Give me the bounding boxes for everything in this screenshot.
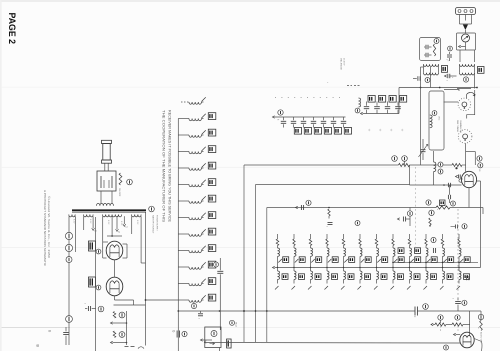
- svg-text:6.3 V: 6.3 V: [73, 219, 75, 224]
- svg-text:THE COOPERATION OF THE MANUFAC: THE COOPERATION OF THE MANUFACTURER OF T…: [162, 110, 166, 223]
- svg-text:RECEIVER MAKES IT POSSIBLE TO: RECEIVER MAKES IT POSSIBLE TO BRING YOU …: [168, 110, 172, 222]
- svg-text:AUDIO OUT: AUDIO OUT: [480, 332, 483, 344]
- svg-text:CHANNEL SEL: CHANNEL SEL: [459, 120, 462, 133]
- svg-text:FINE TUNING: FINE TUNING: [456, 120, 458, 133]
- svg-text:b: b: [172, 331, 176, 333]
- svg-text:ON-OFF: ON-OFF: [118, 188, 120, 197]
- svg-text:6.3 V: 6.3 V: [120, 221, 122, 226]
- svg-text:6.3 V: 6.3 V: [89, 219, 91, 224]
- svg-text:V4: V4: [478, 169, 480, 171]
- svg-text:6.3 V: 6.3 V: [107, 220, 109, 225]
- svg-text:A PHOTOFACT STANDARD NOTATION: A PHOTOFACT STANDARD NOTATION SCHEMATIC: [43, 190, 47, 267]
- svg-text:POWER SUPPLY: POWER SUPPLY: [156, 215, 158, 232]
- svg-text:©Howard W. Sams & Co., Inc. 19: ©Howard W. Sams & Co., Inc. 1950: [47, 196, 51, 258]
- svg-text:6.3 V: 6.3 V: [136, 220, 138, 225]
- svg-text:PAGE 2: PAGE 2: [6, 13, 17, 45]
- svg-text:B 2 C 2: B 2 C 2: [36, 345, 40, 351]
- svg-text:OSC: OSC: [438, 116, 440, 121]
- svg-text:6AQ5: 6AQ5: [235, 322, 238, 327]
- svg-text:13.5 KV: 13.5 KV: [343, 58, 345, 66]
- svg-text:SAMS PHOTOFACT: SAMS PHOTOFACT: [152, 215, 155, 234]
- svg-text:2ND ANODE: 2ND ANODE: [340, 58, 343, 71]
